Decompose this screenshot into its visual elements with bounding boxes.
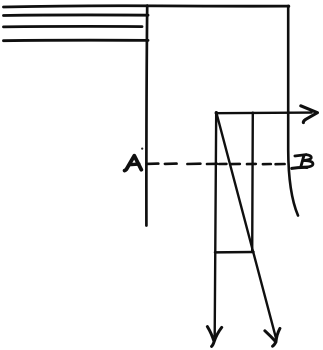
wire hatch line 3 [4, 25, 143, 28]
wire right wall vertical with bottom curve [288, 6, 298, 216]
arrowhead down diagonal [265, 328, 280, 346]
arrowhead down left [207, 327, 221, 347]
dashed line A-B [147, 162, 285, 165]
wire rect left vertical (down arrow shaft) [215, 113, 217, 337]
arrowhead right [301, 106, 318, 123]
corner blob rect top-left [215, 111, 218, 114]
label A [125, 156, 142, 171]
wire top boundary line [4, 6, 289, 7]
wire rect bottom horizontal [215, 251, 254, 254]
wire diagonal arrow shaft [216, 113, 276, 338]
wire left wall vertical [145, 6, 149, 226]
corner blob top-right [287, 5, 290, 8]
speck near A [141, 148, 143, 150]
label B [292, 155, 313, 169]
wire horizontal arrow line [216, 111, 312, 114]
wire rect right vertical [251, 113, 254, 252]
wire hatch line 4 [4, 39, 149, 42]
wire hatch line 2 [4, 14, 149, 17]
